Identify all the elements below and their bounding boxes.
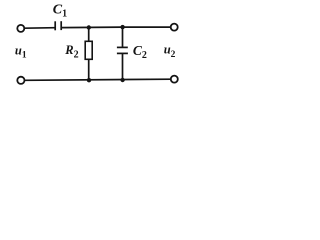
terminal TR: [171, 24, 178, 31]
terminal BR: [171, 76, 178, 83]
svg-text:u2: u2: [164, 43, 176, 60]
wire top-right segment: [123, 26, 171, 28]
terminal TL: [17, 25, 24, 32]
capacitor C1: [55, 21, 61, 30]
wire C2 bottom lead: [122, 53, 124, 80]
wire top-left segment: [25, 27, 56, 30]
svg-text:R2: R2: [64, 43, 78, 60]
svg-text:C2: C2: [133, 43, 147, 61]
wire C2 top lead: [122, 27, 124, 47]
resistor R2: [85, 41, 92, 59]
junction dot bottom node R2: [87, 78, 91, 82]
svg-text:u1: u1: [15, 43, 27, 60]
svg-text:C1: C1: [53, 3, 67, 20]
capacitor C2: [117, 47, 128, 53]
junction dot top node C2: [120, 25, 124, 29]
junction dot bottom node C2: [120, 78, 124, 82]
wire R2 bottom lead: [88, 59, 90, 80]
wire top-middle segment: [61, 26, 122, 29]
junction dot top node R2: [87, 25, 91, 29]
wire bottom segment: [25, 79, 171, 80]
wire R2 top lead: [88, 28, 90, 42]
terminal BL: [17, 77, 24, 84]
